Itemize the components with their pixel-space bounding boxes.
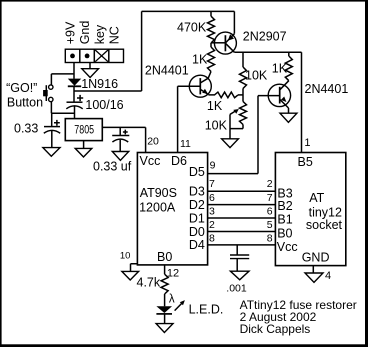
svg-text:+9V: +9V	[64, 21, 78, 44]
svg-text:7805: 7805	[74, 122, 94, 136]
svg-text:470K: 470K	[177, 20, 207, 34]
svg-text:6: 6	[267, 205, 273, 217]
svg-text:AT90S: AT90S	[140, 186, 177, 200]
svg-text:2N4401: 2N4401	[145, 63, 189, 77]
svg-text:Vcc: Vcc	[140, 154, 161, 168]
svg-text:2N2907: 2N2907	[243, 30, 287, 44]
svg-text:Button: Button	[7, 95, 43, 109]
svg-text:0.33: 0.33	[14, 122, 38, 136]
svg-text:D3: D3	[189, 185, 205, 199]
svg-text:D4: D4	[189, 238, 205, 252]
svg-text:L.E.D.: L.E.D.	[189, 303, 224, 317]
svg-text:12: 12	[167, 268, 179, 280]
svg-text:9: 9	[210, 160, 216, 172]
svg-text:Dick Cappels: Dick Cappels	[240, 322, 311, 336]
svg-text:2: 2	[267, 178, 273, 190]
svg-text:GND: GND	[302, 251, 330, 265]
svg-text:socket: socket	[306, 218, 343, 232]
svg-text:λ: λ	[169, 293, 175, 305]
svg-text:2N4401: 2N4401	[305, 82, 349, 96]
svg-text:B0: B0	[157, 250, 172, 264]
svg-text:Gnd: Gnd	[78, 21, 92, 45]
svg-text:1200A: 1200A	[139, 200, 176, 214]
svg-text:4: 4	[325, 270, 331, 282]
svg-text:8: 8	[209, 232, 215, 244]
svg-text:1K: 1K	[272, 62, 288, 76]
svg-text:1: 1	[304, 137, 310, 149]
svg-text:B1: B1	[277, 213, 292, 227]
svg-text:5: 5	[267, 219, 273, 231]
svg-text:D1: D1	[189, 211, 205, 225]
svg-text:3: 3	[209, 205, 215, 217]
svg-text:AT: AT	[309, 191, 324, 205]
svg-text:7: 7	[267, 192, 273, 204]
svg-text:“GO!”: “GO!”	[6, 81, 37, 95]
svg-text:D6: D6	[171, 154, 187, 168]
svg-text:20: 20	[147, 136, 159, 148]
svg-text:D2: D2	[189, 198, 205, 212]
svg-text:.001: .001	[226, 283, 247, 295]
svg-text:8: 8	[267, 232, 273, 244]
svg-text:B5: B5	[298, 155, 313, 169]
svg-text:0.33 uf: 0.33 uf	[93, 160, 132, 174]
svg-text:D0: D0	[189, 225, 205, 239]
svg-text:B2: B2	[277, 199, 292, 213]
svg-text:10K: 10K	[245, 68, 268, 82]
svg-text:4.7k: 4.7k	[137, 275, 161, 289]
svg-text:B0: B0	[277, 226, 292, 240]
svg-text:D5: D5	[189, 165, 205, 179]
svg-text:NC: NC	[107, 26, 121, 44]
svg-text:11: 11	[180, 138, 191, 150]
svg-text:100/16: 100/16	[85, 98, 123, 112]
svg-text:1K: 1K	[207, 99, 223, 113]
svg-text:1K: 1K	[192, 53, 208, 67]
svg-text:key: key	[93, 24, 107, 44]
svg-text:Vcc: Vcc	[277, 240, 298, 254]
svg-text:10K: 10K	[205, 119, 228, 133]
svg-text:6: 6	[209, 192, 215, 204]
svg-text:1N916: 1N916	[81, 77, 118, 91]
svg-text:7: 7	[209, 178, 215, 190]
svg-text:2: 2	[209, 219, 215, 231]
svg-text:10: 10	[120, 251, 131, 262]
